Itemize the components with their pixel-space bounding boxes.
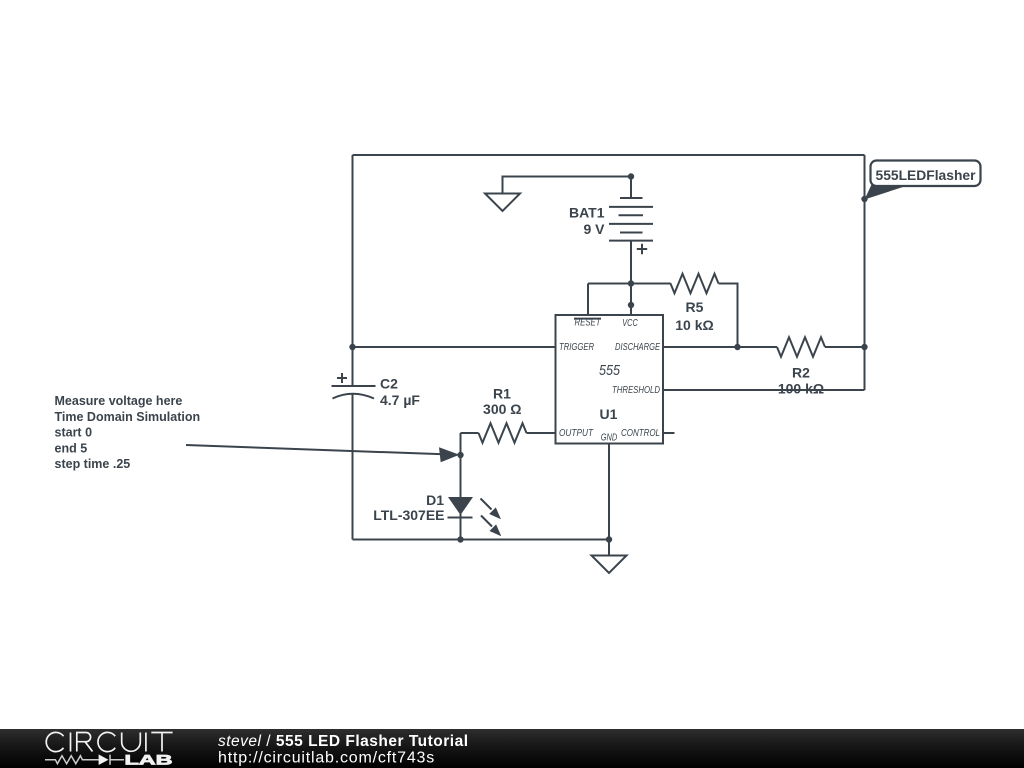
svg-text:BAT1: BAT1 [569,205,605,221]
tooltip 555LEDFlasher [871,161,981,187]
svg-text:LAB: LAB [125,752,173,768]
ground top-left [485,194,520,212]
svg-text:DISCHARGE: DISCHARGE [615,342,660,353]
svg-text:300 Ω: 300 Ω [483,401,521,417]
wire bottom [353,539,610,541]
wire ground-to-battery [503,177,632,194]
svg-text:stevel / 555 LED Flasher Tutor: stevel / 555 LED Flasher Tutorial [218,733,469,750]
svg-text:VCC: VCC [622,318,638,329]
svg-text:9 V: 9 V [583,221,605,237]
op-amp U1 555 box [556,315,664,444]
svg-text:10 kΩ: 10 kΩ [675,317,713,333]
svg-text:LTL-307EE: LTL-307EE [373,507,444,523]
svg-text:R2: R2 [792,365,810,381]
resistor R1 [479,423,527,443]
svg-text:100 kΩ: 100 kΩ [778,381,824,397]
tooltip tail [865,184,907,200]
svg-text:OUTPUT: OUTPUT [559,428,594,439]
svg-text:555LEDFlasher: 555LEDFlasher [876,167,977,183]
node R2 right junction [861,344,867,350]
node arrow junction [457,452,463,458]
svg-text:U1: U1 [600,406,618,422]
wire R2 right lead [825,346,865,348]
svg-text:Time Domain Simulation: Time Domain Simulation [55,410,201,424]
annotation arrow [186,445,444,454]
wire trigger [353,346,556,348]
wire R1 right lead [527,432,556,434]
battery BAT1 [609,177,653,284]
wire outer right [864,155,866,390]
svg-text:TRIGGER: TRIGGER [559,342,594,353]
node trigger junction [349,344,355,350]
wire threshold [663,389,865,391]
svg-text:http://circuitlab.com/cft743s: http://circuitlab.com/cft743s [218,750,435,767]
wire discharge [663,346,777,348]
svg-text:Measure voltage here: Measure voltage here [55,394,183,408]
wire R5 right lead [719,284,738,348]
logo resistor-diode icon [45,755,124,765]
resistor R5 [671,274,719,294]
node D1 bottom junction [457,536,463,542]
svg-text:CONTROL: CONTROL [621,428,660,439]
svg-text:step time .25: step time .25 [55,457,131,471]
svg-text:D1: D1 [426,492,444,508]
resistor R2 [777,337,825,357]
node battery top junction [628,173,634,179]
svg-text:GND: GND [601,433,618,444]
svg-text:THRESHOLD: THRESHOLD [612,385,660,396]
svg-text:R5: R5 [686,299,704,315]
wire outer top [353,154,865,156]
node tooltip anchor [861,196,867,202]
wire output [461,432,479,434]
node R5 left junction [628,280,634,286]
wire output vertical [460,433,462,540]
wire reset stem [587,284,589,316]
node discharge junction [734,344,740,350]
svg-text:end 5: end 5 [55,441,88,455]
wire vcc stem [630,284,632,316]
svg-text:R1: R1 [493,386,511,402]
capacitor C2 [332,373,376,399]
svg-text:start 0: start 0 [55,426,93,440]
wire outer left lower [352,394,354,540]
LED D1 [448,497,502,536]
wire control stub [663,432,675,434]
svg-text:555: 555 [599,363,621,379]
wire gnd pin [608,444,610,556]
svg-text:C2: C2 [380,376,398,392]
node gnd junction [606,536,612,542]
wire outer left upper [352,155,354,386]
svg-text:4.7 µF: 4.7 µF [380,392,420,408]
node vcc dot [628,302,634,308]
ground bottom [592,556,627,574]
wire vcc/reset horizontal [588,283,671,285]
logo CIRCUIT [46,732,172,751]
